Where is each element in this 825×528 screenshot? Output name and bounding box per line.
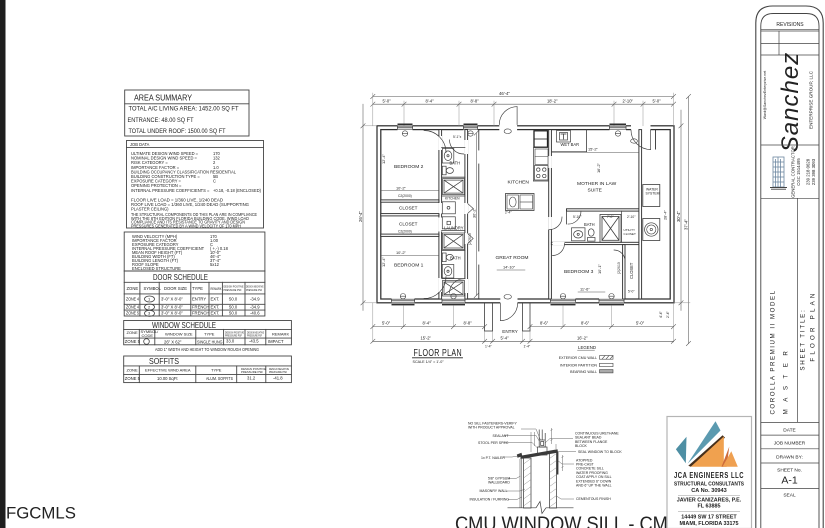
svg-text:5'-4": 5'-4" xyxy=(501,335,510,340)
svg-text:5'-0": 5'-0" xyxy=(383,98,392,103)
svg-text:DOOR SIZE: DOOR SIZE xyxy=(164,286,187,291)
svg-text:SYMBOL: SYMBOL xyxy=(144,286,162,291)
svg-text:PRESSURE PSF: PRESSURE PSF xyxy=(224,288,242,292)
svg-text:2'-4": 2'-4" xyxy=(666,310,670,318)
sill detail leaders right xyxy=(546,439,577,500)
interior openings xyxy=(438,136,468,293)
right dimension lines xyxy=(674,94,691,345)
scan edge bar xyxy=(0,0,6,528)
svg-text:INTERIOR PARTITION: INTERIOR PARTITION xyxy=(560,364,597,368)
svg-text:SEALANT: SEALANT xyxy=(493,434,510,438)
svg-text:3: 3 xyxy=(148,311,151,316)
svg-text:2'-4": 2'-4" xyxy=(505,211,512,215)
area summary table xyxy=(125,90,249,136)
svg-text:ZONE: ZONE xyxy=(127,286,139,291)
svg-text:A-1: A-1 xyxy=(781,475,798,487)
svg-text:SEAL: SEAL xyxy=(783,493,796,499)
svg-text:FGCMLS: FGCMLS xyxy=(6,504,76,523)
model names xyxy=(770,289,817,414)
svg-text:C: C xyxy=(213,179,216,184)
interior wall: wet band right xyxy=(465,130,468,299)
svg-text:16'-2": 16'-2" xyxy=(577,335,588,340)
bath2 toilet xyxy=(442,253,453,262)
svg-text:DATE: DATE xyxy=(783,428,795,434)
svg-text:14'-10": 14'-10" xyxy=(503,264,516,269)
room labels xyxy=(394,142,634,334)
great room west wall xyxy=(478,130,480,299)
svg-text:WET BAR: WET BAR xyxy=(561,142,580,147)
svg-text:50.0: 50.0 xyxy=(229,311,238,316)
broom cabinet xyxy=(442,217,455,229)
svg-text:EFFECTIVE WIND AREA: EFFECTIVE WIND AREA xyxy=(145,368,191,373)
svg-text:AREA SUMMARY: AREA SUMMARY xyxy=(134,94,193,103)
svg-text:ZONE 5: ZONE 5 xyxy=(125,339,141,344)
svg-text:BATH: BATH xyxy=(450,160,461,165)
svg-text:PRESSURE PSF: PRESSURE PSF xyxy=(269,370,287,374)
window schedule table xyxy=(124,321,292,345)
svg-text:SINGLE HUNG: SINGLE HUNG xyxy=(197,340,223,345)
utility closet xyxy=(622,211,636,242)
svg-text:BATH: BATH xyxy=(450,256,461,261)
wall stub right of rear door xyxy=(655,130,657,149)
svg-text:ZONE: ZONE xyxy=(127,368,138,373)
svg-text:MASTER: MASTER xyxy=(783,344,790,415)
top dimension row segments xyxy=(371,102,676,106)
svg-text:26" X 62": 26" X 62" xyxy=(164,340,182,345)
svg-text:5'-0": 5'-0" xyxy=(628,290,635,294)
gypsum + furring lines xyxy=(520,459,522,508)
svg-text:11'-6": 11'-6" xyxy=(580,287,590,292)
JCA logo right orange triangle xyxy=(723,451,738,467)
legend xyxy=(559,345,613,374)
suite toilet xyxy=(588,229,596,241)
bath2 X box xyxy=(443,281,465,297)
svg-text:CLOSET: CLOSET xyxy=(399,222,418,227)
svg-text:5'-10": 5'-10" xyxy=(573,215,582,219)
svg-text:REVISIONS: REVISIONS xyxy=(776,22,804,28)
svg-text:REMARK: REMARK xyxy=(272,332,289,337)
JCA logo big teal blade xyxy=(688,421,721,464)
bottom dim segment row xyxy=(371,324,676,328)
svg-text:1'-4": 1'-4" xyxy=(524,344,532,348)
divider below contractor xyxy=(761,197,819,199)
top extension lines xyxy=(373,93,674,126)
svg-text:BEDROOM 1: BEDROOM 1 xyxy=(394,263,424,269)
top dimension row overall xyxy=(371,94,676,98)
svg-text:SOFFITS: SOFFITS xyxy=(149,356,179,366)
svg-text:KITCHEN: KITCHEN xyxy=(445,197,460,201)
interior dim line 30'-2" xyxy=(474,131,478,298)
kitchen stove xyxy=(535,166,549,181)
svg-text:FRENCH: FRENCH xyxy=(192,311,209,316)
svg-text:5'-0": 5'-0" xyxy=(636,321,645,326)
shower X box 1 xyxy=(443,179,465,195)
washer circle box xyxy=(643,219,660,241)
svg-text:-43.5: -43.5 xyxy=(249,339,259,344)
svg-text:ENTRY: ENTRY xyxy=(502,329,518,334)
svg-text:BATH: BATH xyxy=(584,222,595,227)
svg-text:Sanchez: Sanchez xyxy=(777,52,804,152)
svg-text:C2(2000): C2(2000) xyxy=(398,229,412,233)
svg-text:ENTRANCE: 48.00 SQ FT: ENTRANCE: 48.00 SQ FT xyxy=(128,117,194,124)
wall openings (white gaps) xyxy=(392,125,651,304)
JCA logo big orange triangle xyxy=(691,437,724,467)
svg-text:JOB NUMBER: JOB NUMBER xyxy=(774,441,806,447)
entry vestibule xyxy=(485,303,530,331)
svg-text:BEDROOM 3: BEDROOM 3 xyxy=(564,269,594,275)
svg-text:-34.9: -34.9 xyxy=(250,297,260,302)
svg-text:FL 63885: FL 63885 xyxy=(698,504,721,510)
svg-text:KITCHEN: KITCHEN xyxy=(508,179,530,185)
svg-text:ZONE 5: ZONE 5 xyxy=(126,311,140,316)
svg-text:12'-4": 12'-4" xyxy=(381,153,386,164)
svg-text:15'-2": 15'-2" xyxy=(421,335,432,340)
main divider wall center/right xyxy=(549,130,552,299)
svg-text:ZONE 4: ZONE 4 xyxy=(126,305,140,310)
svg-text:+0.18, -0.18 (ENCLOSED): +0.18, -0.18 (ENCLOSED) xyxy=(213,188,262,193)
svg-text:CODE: CODE xyxy=(142,333,154,338)
svg-text:ZONE: ZONE xyxy=(127,330,138,335)
wall break bottom xyxy=(508,502,574,514)
svg-text:10'-2": 10'-2" xyxy=(396,185,407,190)
wet bar xyxy=(551,130,586,152)
svg-text:31.2: 31.2 xyxy=(247,376,256,381)
small dim labels inside rooms xyxy=(381,135,668,294)
svg-text:15'-2": 15'-2" xyxy=(588,147,599,152)
svg-text:2'-10": 2'-10" xyxy=(627,215,636,219)
svg-text:1x P.T. NAILER: 1x P.T. NAILER xyxy=(481,456,505,460)
svg-text:BEDROOM 2: BEDROOM 2 xyxy=(394,164,424,170)
window symbols top wall xyxy=(398,126,627,129)
svg-text:STOOL PER SPEC: STOOL PER SPEC xyxy=(478,441,509,445)
sanchez logo script xyxy=(763,52,814,152)
svg-text:8'-6": 8'-6" xyxy=(581,321,590,326)
suite vanity xyxy=(572,228,586,241)
exterior CMU wall (double line) xyxy=(377,126,674,303)
svg-text:ZONE 5: ZONE 5 xyxy=(125,376,141,381)
bed3 closet wall xyxy=(623,245,625,299)
svg-text:PRESSURE PSF: PRESSURE PSF xyxy=(246,288,262,292)
left dimension line xyxy=(361,104,377,310)
svg-text:CLOSET: CLOSET xyxy=(399,205,418,210)
svg-text:TYPE: TYPE xyxy=(204,332,215,337)
svg-text:MASONRY WALL: MASONRY WALL xyxy=(480,489,508,493)
svg-text:REMARK: REMARK xyxy=(211,287,222,291)
svg-text:5'-1"x: 5'-1"x xyxy=(453,135,462,139)
svg-text:ADD 1" WIDTH AND HEIGHT TO WIN: ADD 1" WIDTH AND HEIGHT TO WINDOW ROUGH … xyxy=(155,347,259,352)
sill detail title (cut off at sheet edge) xyxy=(455,514,681,528)
svg-text:PRESSURE PSF: PRESSURE PSF xyxy=(225,334,242,338)
svg-text:1'-4": 1'-4" xyxy=(485,344,493,348)
svg-text:CA No. 30943: CA No. 30943 xyxy=(691,488,727,494)
svg-text:14449 SW 17 STREET: 14449 SW 17 STREET xyxy=(681,514,737,520)
svg-text:LEGEND: LEGEND xyxy=(578,345,596,350)
svg-text:ALUM. SOFFITS: ALUM. SOFFITS xyxy=(206,376,233,381)
svg-text:SCALE 1/4" = 1'-0": SCALE 1/4" = 1'-0" xyxy=(413,360,445,364)
suite shower xyxy=(600,215,621,243)
svg-text:5'-0": 5'-0" xyxy=(382,321,391,326)
bedroom3 north wall xyxy=(551,242,640,244)
svg-text:EXT.: EXT. xyxy=(211,305,220,310)
svg-text:-34.9: -34.9 xyxy=(250,305,260,310)
svg-text:239 398 3093: 239 398 3093 xyxy=(811,158,816,185)
svg-text:(2)2X10: (2)2X10 xyxy=(617,262,621,274)
svg-text:33.0: 33.0 xyxy=(226,339,235,344)
svg-text:INTERNAL PRESSURE COEFFICIENTS: INTERNAL PRESSURE COEFFICIENTS = xyxy=(131,188,210,193)
svg-text:7'-0": 7'-0" xyxy=(607,215,614,219)
suite bath north wall xyxy=(567,209,641,211)
svg-text:FRENCH: FRENCH xyxy=(192,305,209,310)
svg-text:4'-4": 4'-4" xyxy=(659,310,663,318)
svg-text:PRESSURE PSF: PRESSURE PSF xyxy=(241,370,263,374)
window symbols bottom wall xyxy=(392,299,625,302)
svg-text:3'-0" X 8'-0": 3'-0" X 8'-0" xyxy=(161,311,183,316)
revisions header xyxy=(761,22,819,55)
masonry wall section xyxy=(524,453,557,509)
svg-text:30'-4": 30'-4" xyxy=(676,211,681,222)
svg-text:TYPE: TYPE xyxy=(211,368,222,373)
svg-text:26'-4": 26'-4" xyxy=(358,211,363,222)
svg-text:16'-2": 16'-2" xyxy=(596,162,601,173)
precast sill (dark sloped band) xyxy=(517,449,559,474)
svg-text:AND 6" UP THE WALL: AND 6" UP THE WALL xyxy=(576,484,612,488)
inner border xyxy=(761,14,819,528)
floor plan title xyxy=(413,347,463,364)
svg-text:8'-6": 8'-6" xyxy=(540,321,549,326)
svg-text:50.0: 50.0 xyxy=(229,305,238,310)
svg-text:TOTAL UNDER ROOF: 1500.00 SQ F: TOTAL UNDER ROOF: 1500.00 SQ FT xyxy=(129,128,226,135)
svg-text:239 218 0628: 239 218 0628 xyxy=(806,158,811,185)
laundry X box xyxy=(443,233,465,250)
svg-text:ENTRY: ENTRY xyxy=(192,297,206,302)
svg-text:3'-0" X 8'-0": 3'-0" X 8'-0" xyxy=(161,297,183,302)
svg-text:JOB DATA: JOB DATA xyxy=(130,142,150,147)
svg-text:ENTERPRISE GROUP, LLC: ENTERPRISE GROUP, LLC xyxy=(809,70,814,129)
svg-text:ENCLOSED STRUCTURE: ENCLOSED STRUCTURE xyxy=(132,266,181,271)
outer sheet border xyxy=(756,6,823,528)
JCA text xyxy=(674,471,744,527)
sill detail leaders left xyxy=(503,429,541,500)
svg-text:5x12: 5x12 xyxy=(210,262,220,267)
svg-text:STRUCTURAL CONSULTANTS: STRUCTURAL CONSULTANTS xyxy=(674,481,744,487)
svg-text:WINDOW SCHEDULE: WINDOW SCHEDULE xyxy=(152,321,216,330)
water system box xyxy=(643,185,660,207)
model/title section divider xyxy=(797,198,799,422)
watermark FGCMLS xyxy=(6,504,76,523)
JCA logo dark sliver xyxy=(688,435,725,467)
svg-text:FLOOR PLAN: FLOOR PLAN xyxy=(414,347,463,359)
svg-text:GREAT ROOM: GREAT ROOM xyxy=(496,255,529,261)
svg-text:INSULATION / FURRING: INSULATION / FURRING xyxy=(470,498,510,502)
closet bifold markers xyxy=(468,204,474,244)
svg-text:CGC 1514495: CGC 1514495 xyxy=(796,158,801,186)
bath1 toilet xyxy=(442,166,453,175)
kitchen fridge xyxy=(534,131,548,147)
svg-text:Ward@SanchezEnterprise.net: Ward@SanchezEnterprise.net xyxy=(763,71,767,119)
svg-text:10.00 SqFt: 10.00 SqFt xyxy=(157,376,178,381)
JCA logo dark orange wedge xyxy=(722,447,730,467)
svg-text:10'-2": 10'-2" xyxy=(396,250,407,255)
svg-text:8'-8": 8'-8" xyxy=(464,321,473,326)
sill labels right xyxy=(575,432,622,502)
interior wall: wet band left xyxy=(439,130,442,299)
job data table xyxy=(127,141,264,229)
svg-text:WINDOW SIZE: WINDOW SIZE xyxy=(165,332,193,337)
suite bath left wall xyxy=(566,211,568,224)
svg-text:8'-4": 8'-4" xyxy=(426,98,435,103)
svg-text:18'-2": 18'-2" xyxy=(547,98,558,103)
svg-text:DRAWN BY:: DRAWN BY: xyxy=(776,455,803,461)
closet walls left wing xyxy=(381,200,439,237)
svg-text:SHEET TITLE:: SHEET TITLE: xyxy=(800,308,807,370)
JCA engineers box xyxy=(667,417,752,528)
svg-text:BLOCK: BLOCK xyxy=(575,444,588,448)
bottom window sill bars xyxy=(392,124,627,306)
svg-text:8'-4": 8'-4" xyxy=(423,321,432,326)
window tag circles xyxy=(400,129,637,299)
JCA logo small teal triangle xyxy=(676,437,687,463)
svg-text:SUITE: SUITE xyxy=(588,188,603,194)
svg-text:30'-2": 30'-2" xyxy=(472,207,477,218)
svg-text:LAUNDRY: LAUNDRY xyxy=(444,226,464,231)
door arcs xyxy=(424,107,651,321)
kitchen counter edge xyxy=(534,148,549,182)
svg-text:DOOR SCHEDULE: DOOR SCHEDULE xyxy=(153,272,208,282)
svg-text:3'-0" X 8'-0": 3'-0" X 8'-0" xyxy=(161,305,183,310)
svg-text:CMU WINDOW SILL - CMU: CMU WINDOW SILL - CMU xyxy=(455,514,681,528)
bath2 vanity xyxy=(442,265,454,279)
water system strip wall xyxy=(639,130,642,299)
svg-text:JCA ENGINEERS LLC: JCA ENGINEERS LLC xyxy=(674,471,744,480)
svg-text:CLOSET: CLOSET xyxy=(624,232,636,236)
svg-text:(2)2X10: (2)2X10 xyxy=(468,233,472,245)
contractor text xyxy=(791,146,816,198)
sill labels left xyxy=(468,422,518,502)
svg-text:SEAL WINDOW TO BLOCK: SEAL WINDOW TO BLOCK xyxy=(578,450,622,454)
svg-text:GENERAL CONTRACTOR: GENERAL CONTRACTOR xyxy=(791,146,796,198)
svg-text:WALLBOARD: WALLBOARD xyxy=(488,481,510,485)
svg-text:5'-0": 5'-0" xyxy=(653,98,662,103)
bedroom interior dim lines xyxy=(382,152,639,292)
bath1 vanity xyxy=(442,149,454,164)
kitchen island sink/dw xyxy=(506,194,535,211)
svg-text:-41.8: -41.8 xyxy=(273,376,283,381)
contractor building icon xyxy=(770,157,787,189)
svg-text:CLOSET: CLOSET xyxy=(629,262,634,279)
bed3 wall door opening xyxy=(553,242,565,245)
svg-text:MOTHER IN LAW: MOTHER IN LAW xyxy=(577,181,617,187)
svg-text:EXTERIOR CMU WALL: EXTERIOR CMU WALL xyxy=(559,356,597,360)
svg-text:50.0: 50.0 xyxy=(229,297,238,302)
svg-text:PRESSURES GENERATED BY A WIND: PRESSURES GENERATED BY A WIND VELOCITY O… xyxy=(131,223,241,228)
svg-text:PRESSURE PSF: PRESSURE PSF xyxy=(247,334,262,338)
svg-text:ZONE 4: ZONE 4 xyxy=(126,297,140,302)
hatch masonry faces xyxy=(524,454,557,508)
bottom dim overall row xyxy=(371,339,676,343)
svg-text:COROLLA PREMIUM II MODEL: COROLLA PREMIUM II MODEL xyxy=(770,289,777,414)
small dim marks top xyxy=(531,428,564,471)
svg-text:SYSTEM: SYSTEM xyxy=(646,192,660,196)
svg-text:C2(2000): C2(2000) xyxy=(398,194,412,198)
svg-text:EXT.: EXT. xyxy=(211,311,220,316)
svg-text:2'-10": 2'-10" xyxy=(623,98,634,103)
svg-text:FLOOR PLAN: FLOOR PLAN xyxy=(810,290,817,361)
svg-text:CEMENTOUS FINISH: CEMENTOUS FINISH xyxy=(576,497,611,501)
svg-text:WITH PRODUCT APPROVAL: WITH PRODUCT APPROVAL xyxy=(468,426,515,430)
svg-text:TOTAL A/C LIVING AREA: 1452.00: TOTAL A/C LIVING AREA: 1452.00 SQ FT xyxy=(129,106,239,113)
band section dividers xyxy=(442,148,465,279)
divider above contractor xyxy=(761,144,819,146)
svg-text:12'-4": 12'-4" xyxy=(381,256,386,267)
svg-text:37'-4": 37'-4" xyxy=(683,219,688,230)
svg-text:IMPACT: IMPACT xyxy=(268,339,284,344)
soffits table xyxy=(124,356,292,383)
svg-text:28'-4": 28'-4" xyxy=(663,209,668,220)
svg-text:EXT.: EXT. xyxy=(211,297,220,302)
svg-text:8'-8": 8'-8" xyxy=(471,98,480,103)
svg-text:BEARING WALL: BEARING WALL xyxy=(570,370,597,374)
svg-text:-40.6: -40.6 xyxy=(250,311,260,316)
svg-text:TYPE: TYPE xyxy=(192,286,203,291)
svg-text:2: 2 xyxy=(148,305,151,310)
svg-text:SHEET No.: SHEET No. xyxy=(777,468,802,474)
wind criteria + door schedule table xyxy=(124,232,265,316)
window frame xyxy=(538,430,548,456)
pantry cabinet xyxy=(442,202,455,214)
svg-text:MIAMI, FLORIDA 33175: MIAMI, FLORIDA 33175 xyxy=(679,521,738,527)
svg-text:1: 1 xyxy=(148,297,151,302)
info rows xyxy=(761,422,819,498)
svg-text:46'-4": 46'-4" xyxy=(499,91,510,96)
bottom extension lines xyxy=(373,303,674,342)
svg-text:10'-1": 10'-1" xyxy=(597,263,602,274)
